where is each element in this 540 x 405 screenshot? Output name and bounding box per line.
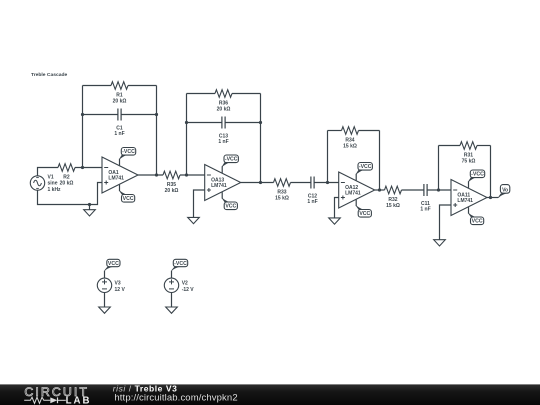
svg-text:VCC: VCC	[123, 196, 134, 202]
wire R35 to OA13 inverting input	[180, 174, 205, 176]
ground V3	[99, 307, 111, 313]
wire feedback left vertical stage4	[438, 146, 440, 191]
wire C11 to OA11 inverting input	[427, 189, 451, 191]
node OA12 output	[378, 188, 381, 191]
node OA1 output	[155, 173, 158, 176]
svg-text:-VCC: -VCC	[359, 164, 372, 170]
wire V3 top	[104, 271, 106, 278]
flag VCC on OA12	[355, 200, 357, 207]
svg-text:Treble Cascade: Treble Cascade	[31, 72, 67, 78]
wire feedback left vertical stage3	[327, 131, 329, 183]
node OA13 input junction	[185, 173, 188, 176]
resistor R31 75 k (feedback)	[439, 142, 491, 165]
flag -VCC on OA12	[355, 174, 357, 181]
wire feedback right vertical stage1	[156, 86, 158, 176]
resistor R36 20 k (feedback)	[187, 90, 261, 113]
svg-text:http://circuitlab.com/chvpkn2: http://circuitlab.com/chvpkn2	[114, 392, 237, 403]
node ground junction stage1	[88, 203, 91, 206]
footer bar	[0, 384, 540, 405]
svg-text:1 nF: 1 nF	[114, 131, 124, 137]
node OA13 output	[259, 181, 262, 184]
svg-text:75 kΩ: 75 kΩ	[462, 158, 476, 164]
wire V2 top	[171, 271, 173, 278]
svg-text:12 V: 12 V	[115, 287, 126, 293]
wire R2 to OA1 inverting input	[75, 167, 102, 169]
wire OA13 + input to ground	[194, 190, 205, 217]
wire OA1 output to R35	[138, 174, 163, 176]
wire feedback right vertical stage2	[260, 94, 262, 183]
svg-text:1 nF: 1 nF	[307, 199, 317, 205]
resistor R1 20 k (feedback)	[83, 82, 157, 105]
ground V2	[166, 307, 178, 313]
svg-text:VCC: VCC	[225, 204, 236, 210]
svg-text:20 kΩ: 20 kΩ	[217, 106, 231, 112]
flag -VCC on V2	[171, 259, 188, 271]
op-amp OA12 (LM741)	[339, 172, 375, 208]
logo diode	[50, 397, 57, 403]
svg-text:VCC: VCC	[359, 211, 370, 217]
capacitor C11 1 nF (series)	[420, 184, 430, 213]
ground stage4	[434, 240, 446, 246]
svg-text:sine: sine	[48, 181, 58, 187]
flag VCC on OA13	[221, 192, 223, 199]
svg-text:20 kΩ: 20 kΩ	[60, 180, 74, 186]
svg-text:LM741: LM741	[345, 190, 361, 196]
wire feedback right vertical stage4	[490, 146, 492, 198]
wire V2 bottom	[171, 293, 173, 308]
svg-text:-VCC: -VCC	[122, 149, 135, 155]
svg-text:-12 V: -12 V	[182, 287, 195, 293]
svg-text:VCC: VCC	[472, 219, 483, 225]
capacitor C1 1 nF (feedback)	[83, 109, 157, 138]
svg-text:1 nF: 1 nF	[218, 139, 228, 145]
wire feedback left vertical stage1	[82, 86, 84, 168]
svg-text:1 kHz: 1 kHz	[48, 187, 62, 193]
flag VCC on OA1	[119, 185, 121, 192]
flag -VCC on OA13	[221, 166, 223, 173]
node flag Vo	[498, 185, 510, 198]
voltage source V3 (12 V)	[97, 278, 125, 293]
svg-text:15 kΩ: 15 kΩ	[275, 195, 289, 201]
node: OA1 input junction	[81, 166, 84, 169]
resistor R2 20 k	[58, 164, 75, 187]
node C1 right	[155, 113, 158, 116]
svg-text:15 kΩ: 15 kΩ	[343, 143, 357, 149]
wire R33 to C12	[291, 182, 311, 184]
resistor R33 15 k	[274, 179, 291, 202]
svg-text:LM741: LM741	[457, 198, 473, 204]
op-amp OA1 (LM741)	[102, 157, 138, 193]
resistor R35 20 k	[163, 171, 180, 194]
op-amp OA13 (LM741)	[205, 165, 241, 201]
wire V1 bottom rail to OA1 + input	[38, 183, 103, 205]
svg-text:1 nF: 1 nF	[420, 207, 430, 213]
node C1 left	[81, 113, 84, 116]
svg-text:Vo: Vo	[502, 188, 508, 194]
svg-text:VCC: VCC	[108, 261, 119, 267]
svg-text:V2: V2	[182, 281, 188, 287]
wire V3 bottom	[104, 293, 106, 308]
node C13 left	[185, 121, 188, 124]
resistor R34 15 k (feedback)	[328, 127, 380, 150]
node C13 right	[259, 121, 262, 124]
wire feedback left vertical stage2	[186, 94, 188, 176]
wire V1 top to R2	[38, 168, 59, 176]
ground stage2	[188, 217, 200, 223]
flag VCC on V3	[104, 259, 120, 271]
svg-text:15 kΩ: 15 kΩ	[386, 203, 400, 209]
wire OA12 + input to ground	[335, 198, 339, 218]
svg-text:20 kΩ: 20 kΩ	[113, 98, 127, 104]
node OA11 output	[489, 196, 492, 199]
flag -VCC on OA11	[468, 181, 470, 188]
svg-text:LM741: LM741	[108, 175, 124, 181]
voltage source V2 (-12 V)	[164, 278, 194, 293]
wire OA13 output to R33	[241, 182, 274, 184]
ground stage3	[329, 218, 341, 224]
wire R32 to C11	[402, 189, 424, 191]
svg-text:20 kΩ: 20 kΩ	[165, 188, 179, 194]
ground stage1	[84, 205, 96, 217]
svg-text:LAB: LAB	[66, 395, 92, 405]
capacitor C12 1 nF (series)	[307, 177, 317, 206]
wire C12 to OA12 inverting input	[314, 182, 339, 184]
svg-text:-VCC: -VCC	[471, 172, 484, 178]
svg-text:V3: V3	[115, 281, 121, 287]
svg-text:-VCC: -VCC	[225, 157, 238, 163]
op-amp OA11 (LM741)	[451, 180, 487, 216]
node OA12 input junction	[326, 181, 329, 184]
flag VCC on OA11	[468, 207, 470, 214]
logo resistor squiggle	[24, 397, 50, 403]
flag -VCC on OA1	[119, 159, 121, 166]
resistor R32 15 k	[385, 186, 402, 209]
wire OA12 output to R32	[375, 189, 385, 191]
wire OA11 + input to ground	[440, 205, 452, 240]
wire OA11 output to Vo	[487, 197, 498, 199]
wire feedback right vertical stage3	[379, 131, 381, 191]
node OA11 input junction	[437, 188, 440, 191]
svg-text:LM741: LM741	[211, 183, 227, 189]
voltage source V1 (sine 1 kHz)	[30, 174, 61, 193]
svg-text:-VCC: -VCC	[174, 261, 187, 267]
svg-text:V1: V1	[48, 174, 54, 180]
capacitor C13 1 nF (feedback)	[187, 117, 261, 146]
